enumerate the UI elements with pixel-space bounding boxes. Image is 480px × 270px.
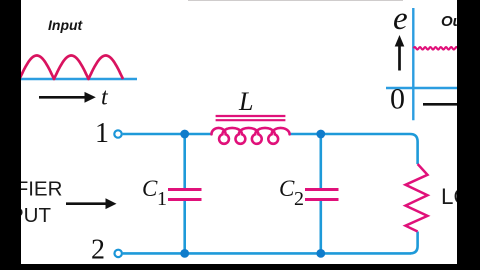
output graph vertical axis <box>412 8 414 120</box>
node dot bottom left <box>180 249 189 258</box>
node dot bottom right <box>316 249 325 258</box>
bottom letterbox bar <box>0 264 480 270</box>
capacitor C2 plates <box>305 190 339 200</box>
terminal 1 circle <box>114 130 121 137</box>
wire C2 branch lower <box>319 200 322 253</box>
output up arrow <box>395 35 405 71</box>
svg-text:2: 2 <box>294 188 304 210</box>
svg-text:C: C <box>142 176 158 201</box>
inductor core line lower <box>216 119 286 121</box>
left letterbox bar <box>0 0 21 270</box>
input waveform axis <box>21 78 138 80</box>
top edge artifact line <box>188 0 403 1</box>
wire top middle <box>289 133 410 136</box>
node dot top left <box>180 130 189 139</box>
wire C1 branch lower <box>183 200 186 253</box>
svg-text:e: e <box>393 1 408 37</box>
wire top left <box>123 133 213 136</box>
svg-text:Input: Input <box>48 17 84 33</box>
wire C2 branch upper <box>319 134 322 189</box>
node dot top right <box>316 130 325 139</box>
input time arrow <box>39 92 96 103</box>
wire C1 branch upper <box>183 134 186 189</box>
svg-text:1: 1 <box>157 188 167 210</box>
rectifier output arrow <box>66 198 117 209</box>
output ripple line <box>414 47 458 49</box>
terminal 2 circle <box>115 250 122 257</box>
wire bottom <box>123 252 411 255</box>
svg-text:2: 2 <box>91 235 105 266</box>
capacitor C1 plates <box>168 190 202 200</box>
output time axis line <box>423 103 458 106</box>
wire right vertical with corners <box>410 134 418 253</box>
svg-text:C: C <box>279 176 295 201</box>
svg-text:t: t <box>101 85 109 111</box>
inductor core line upper <box>216 115 286 117</box>
right letterbox bar <box>457 0 480 270</box>
svg-text:1: 1 <box>95 118 109 149</box>
output graph horizontal axis <box>386 87 458 89</box>
resistor R load zigzag <box>406 164 428 232</box>
inductor L coil <box>212 128 290 144</box>
svg-text:0: 0 <box>390 83 405 116</box>
svg-text:L: L <box>238 87 253 116</box>
input rectified sine waveform <box>20 56 124 80</box>
